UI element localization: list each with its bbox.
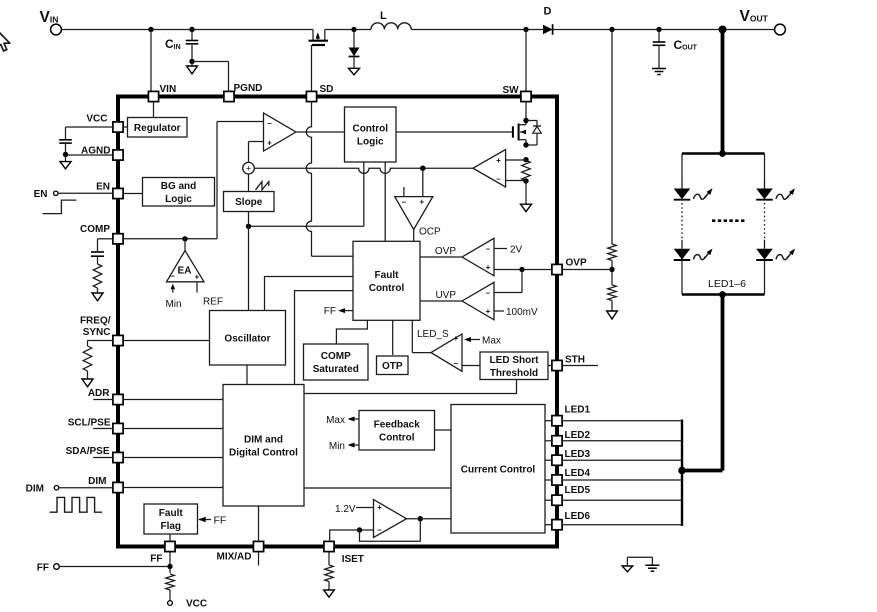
svg-text:+: + — [419, 197, 424, 206]
svg-text:Flag: Flag — [160, 521, 181, 532]
svg-text:+: + — [486, 263, 491, 272]
svg-text:1.2V: 1.2V — [335, 504, 356, 515]
svg-text:DIM: DIM — [26, 484, 44, 495]
svg-text:+: + — [194, 272, 199, 281]
svg-text:+: + — [486, 307, 491, 316]
svg-text:+: + — [496, 156, 501, 165]
svg-text:DIM and: DIM and — [244, 434, 283, 445]
svg-text:OVP: OVP — [566, 258, 587, 269]
svg-text:–: – — [402, 197, 407, 206]
svg-text:SDA/PSE: SDA/PSE — [66, 446, 110, 457]
svg-text:BG and: BG and — [161, 181, 197, 192]
svg-text:FF: FF — [150, 553, 162, 564]
svg-text:D: D — [544, 6, 552, 18]
svg-text:–: – — [377, 526, 382, 535]
svg-text:COMP: COMP — [321, 351, 351, 362]
svg-text:EN: EN — [34, 189, 48, 200]
svg-text:LED2: LED2 — [565, 430, 591, 441]
svg-text:LED3: LED3 — [565, 449, 591, 460]
svg-text:VCC: VCC — [86, 113, 107, 124]
svg-text:COMP: COMP — [80, 224, 110, 235]
svg-text:–: – — [496, 175, 501, 184]
svg-text:VIN: VIN — [160, 84, 177, 95]
svg-text:2V: 2V — [510, 245, 523, 256]
svg-text:LED1: LED1 — [565, 405, 591, 416]
svg-text:OCP: OCP — [419, 227, 441, 238]
svg-text:Regulator: Regulator — [134, 123, 181, 134]
svg-text:Control: Control — [369, 283, 405, 294]
svg-text:100mV: 100mV — [506, 307, 538, 318]
svg-text:+: + — [377, 503, 382, 512]
svg-text:SW: SW — [503, 85, 520, 96]
svg-text:Oscillator: Oscillator — [224, 333, 270, 344]
svg-text:FREQ/: FREQ/ — [80, 315, 111, 326]
svg-text:LED4: LED4 — [565, 468, 591, 479]
svg-text:Max: Max — [326, 415, 345, 426]
svg-text:REF: REF — [203, 297, 223, 308]
svg-text:MIX/AD: MIX/AD — [217, 552, 252, 563]
svg-text:Control: Control — [379, 432, 415, 443]
svg-text:Fault: Fault — [375, 270, 400, 281]
svg-text:OTP: OTP — [382, 361, 403, 372]
svg-text:–: – — [170, 272, 175, 281]
svg-text:FF: FF — [324, 306, 336, 317]
svg-text:STH: STH — [565, 354, 585, 365]
svg-text:LED1–6: LED1–6 — [708, 278, 746, 290]
svg-text:LED5: LED5 — [565, 485, 591, 496]
svg-text:EA: EA — [178, 266, 192, 277]
svg-text:VCC: VCC — [186, 598, 207, 609]
svg-text:FF: FF — [214, 514, 227, 526]
svg-text:+: + — [453, 334, 458, 343]
svg-text:LED_S: LED_S — [417, 329, 449, 340]
svg-text:SCL/PSE: SCL/PSE — [68, 417, 111, 428]
svg-text:FF: FF — [37, 563, 49, 574]
svg-text:ISET: ISET — [342, 554, 364, 565]
svg-text:L: L — [380, 10, 387, 22]
svg-text:Logic: Logic — [357, 137, 384, 148]
svg-text:Fault: Fault — [159, 508, 184, 519]
svg-text:–: – — [267, 119, 272, 128]
svg-text:UVP: UVP — [435, 290, 456, 301]
svg-text:Feedback: Feedback — [374, 419, 421, 430]
svg-text:Current Control: Current Control — [461, 464, 536, 475]
svg-text:DIM: DIM — [88, 476, 106, 487]
svg-text:Slope: Slope — [235, 197, 263, 208]
svg-text:Logic: Logic — [165, 194, 192, 205]
svg-text:+: + — [246, 163, 251, 173]
svg-text:+: + — [267, 139, 272, 148]
svg-text:Saturated: Saturated — [313, 364, 359, 375]
svg-text:LED Short: LED Short — [490, 355, 540, 366]
svg-text:ADR: ADR — [88, 388, 110, 399]
svg-text:–: – — [454, 359, 459, 368]
svg-text:Max: Max — [482, 336, 501, 347]
svg-text:Digital Control: Digital Control — [229, 447, 298, 458]
svg-text:SYNC: SYNC — [83, 327, 111, 338]
svg-text:Min: Min — [165, 299, 181, 310]
svg-text:PGND: PGND — [234, 83, 263, 94]
svg-text:–: – — [486, 288, 491, 297]
svg-text:Min: Min — [329, 441, 345, 452]
svg-text:OVP: OVP — [435, 246, 456, 257]
svg-text:Threshold: Threshold — [490, 368, 538, 379]
svg-text:LED6: LED6 — [565, 511, 591, 522]
svg-text:–: – — [486, 244, 491, 253]
svg-text:Control: Control — [352, 124, 388, 135]
svg-text:EN: EN — [96, 181, 110, 192]
svg-text:SD: SD — [320, 84, 334, 95]
